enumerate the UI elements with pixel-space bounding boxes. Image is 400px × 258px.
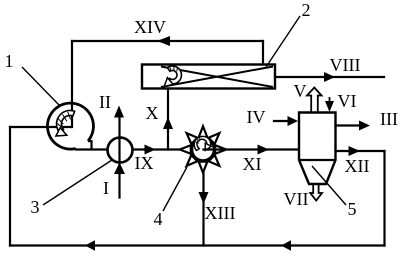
svg-text:XIV: XIV — [134, 17, 166, 37]
svg-text:I: I — [103, 178, 109, 198]
wire XIV left leg into pump — [71, 41, 73, 127]
arrow XIII down — [199, 192, 209, 204]
pump rotation curl — [57, 111, 75, 133]
svg-text:XIII: XIII — [205, 203, 236, 223]
wire pump outlet to mixer — [76, 148, 108, 150]
arrow I up into mixer — [114, 163, 125, 175]
arrow II up — [114, 106, 124, 118]
furnace spike S — [199, 162, 208, 173]
wire XIV right leg into heat exchanger — [262, 41, 264, 65]
arrow XIV left-pointing — [157, 36, 170, 46]
svg-text:VIII: VIII — [330, 55, 361, 75]
arrow VI down into separator with stem — [329, 97, 331, 103]
wire X vertical to heat exchanger — [167, 89, 169, 150]
wire XIV top run — [72, 40, 263, 42]
hollow arrow V up out of separator — [307, 88, 322, 117]
svg-text:III: III — [380, 109, 398, 129]
wire IV run — [274, 120, 288, 122]
wire bottom return run — [10, 244, 385, 246]
furnace spike E — [215, 145, 226, 154]
furnace spike NW — [187, 133, 198, 144]
arrow X up — [163, 117, 173, 129]
wire XIII vertical down — [202, 173, 204, 246]
svg-text:VII: VII — [284, 189, 309, 209]
wire pump inlet from left — [10, 126, 71, 128]
furnace spike W — [180, 145, 191, 154]
arrow XII right-pointing — [349, 146, 361, 156]
wire VIII run — [275, 76, 384, 78]
separator S5 body — [299, 113, 336, 185]
pump volute step — [88, 141, 92, 149]
arrow XI right-pointing — [258, 145, 270, 155]
arrow bottom-right left-pointing — [281, 240, 291, 250]
furnace spike SW — [187, 155, 198, 166]
svg-text:X: X — [146, 103, 159, 123]
svg-text:4: 4 — [154, 209, 163, 229]
furnace spike N — [199, 126, 208, 137]
wire left return vertical — [9, 127, 11, 246]
svg-text:2: 2 — [302, 0, 311, 20]
wire XII run — [336, 150, 385, 152]
leader to pump 1 — [22, 67, 60, 106]
svg-text:IX: IX — [135, 153, 154, 173]
furnace F4 sun circle — [192, 139, 214, 161]
wire pump suction from top — [71, 103, 73, 127]
svg-text:3: 3 — [31, 197, 40, 217]
heat exchanger flow curl — [167, 66, 182, 84]
arrow III right-pointing — [359, 121, 370, 131]
hollow arrow VII down out of cone — [310, 181, 322, 201]
mixer M3 circle — [108, 138, 133, 163]
arrow IV right-pointing — [288, 116, 299, 126]
pump U1 body circle with volute step — [47, 103, 93, 149]
wire XI run — [204, 148, 300, 150]
svg-text:XII: XII — [345, 156, 370, 176]
arrow IX right-pointing — [145, 145, 156, 155]
leader to heat exchanger 2 — [266, 16, 300, 67]
separator shell/cone joint line — [299, 159, 336, 161]
furnace flame curl — [194, 136, 210, 150]
wire III run — [336, 124, 361, 126]
svg-text:V: V — [294, 81, 307, 101]
furnace spike SE — [209, 155, 220, 166]
arrow bottom-left left-pointing — [85, 240, 95, 250]
svg-text:5: 5 — [348, 199, 357, 219]
heat exchanger cross diagonal 1 — [161, 67, 273, 88]
arrow VIII right-pointing — [324, 72, 335, 82]
leader to separator 5 — [312, 166, 346, 205]
leader to furnace 4 — [163, 167, 187, 211]
wire IX run — [133, 148, 182, 150]
furnace spike NE — [209, 133, 220, 144]
heat exchanger E2 shell — [142, 65, 275, 89]
heat exchanger cross diagonal 2 — [161, 67, 273, 88]
svg-text:VI: VI — [338, 91, 357, 111]
wire right vertical — [383, 151, 385, 246]
svg-text:XI: XI — [243, 154, 262, 174]
svg-text:IV: IV — [247, 107, 266, 127]
svg-text:II: II — [99, 92, 111, 112]
wire stream I / II vertical through mixer — [118, 117, 120, 198]
svg-text:1: 1 — [5, 51, 14, 71]
leader to mixer 3 — [43, 160, 112, 205]
